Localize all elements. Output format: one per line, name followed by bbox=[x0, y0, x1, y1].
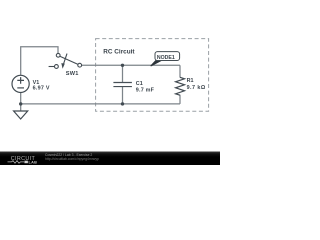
SW1 actuator bbox=[64, 54, 68, 64]
wire C1 bottom lead bbox=[122, 87, 124, 104]
CircuitLab logo chip bbox=[24, 161, 28, 164]
svg-text:6.97 V: 6.97 V bbox=[33, 86, 50, 92]
CircuitLab logo zigzag bbox=[8, 161, 25, 164]
wire V1 top to switch top terminal bbox=[21, 47, 58, 76]
resistor R1 bbox=[176, 77, 185, 95]
switch SW1 bbox=[49, 53, 82, 68]
junction bottom at C1 bbox=[121, 102, 124, 105]
wire R1 bottom lead to bottom rail bbox=[179, 95, 181, 104]
wire C1 top lead bbox=[122, 65, 124, 82]
junction bottom at V1/ground bbox=[19, 102, 22, 105]
SW1 left terminal bbox=[55, 65, 59, 69]
svg-text:LAB: LAB bbox=[29, 161, 38, 165]
wire bottom rail bbox=[21, 103, 180, 105]
wire V1 bottom lead to ground bbox=[20, 93, 22, 111]
node NODE1 bubble bbox=[155, 52, 180, 61]
SW1 common terminal bbox=[78, 63, 82, 67]
voltage source V1 bbox=[12, 75, 29, 92]
junction top node at C1 bbox=[121, 64, 124, 67]
SW1 top terminal bbox=[56, 53, 60, 57]
ground bbox=[14, 111, 28, 119]
RC Circuit dashed box bbox=[96, 39, 209, 112]
svg-text:RC Circuit: RC Circuit bbox=[103, 49, 135, 56]
svg-text:NODE1: NODE1 bbox=[157, 55, 175, 61]
wire switch common to node bbox=[82, 64, 180, 66]
SW1 actuator arrowhead bbox=[61, 63, 65, 69]
SW1 blade bbox=[60, 56, 78, 64]
wire node down to R1 bbox=[179, 65, 181, 77]
SW1 left stub bbox=[49, 66, 55, 68]
svg-text:R1: R1 bbox=[187, 78, 194, 84]
svg-text:SW1: SW1 bbox=[66, 71, 79, 77]
svg-text:9.7 mF: 9.7 mF bbox=[136, 87, 155, 93]
capacitor C1 bbox=[113, 83, 131, 87]
svg-text:http://circuitlab.com/c/npyeg4: http://circuitlab.com/c/npyeg4mrwyp bbox=[45, 157, 99, 161]
node NODE1 pointer tail bbox=[151, 60, 162, 66]
svg-text:C1: C1 bbox=[136, 81, 143, 87]
svg-text:9.7 kΩ: 9.7 kΩ bbox=[187, 85, 206, 91]
